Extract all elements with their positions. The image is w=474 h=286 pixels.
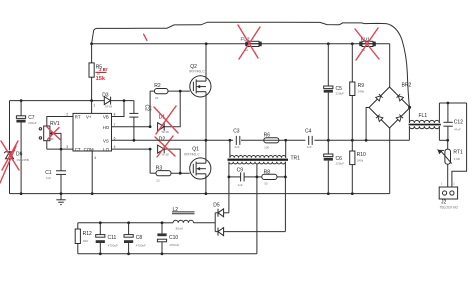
diode D2 (158, 137, 181, 174)
svg-text:5: 5 (114, 145, 116, 149)
bridge rectifier BR2 (369, 82, 411, 128)
svg-text:1N5245B: 1N5245B (16, 158, 29, 162)
capacitor C6 (bus electrolytic) (324, 140, 344, 193)
svg-text:D5: D5 (213, 202, 220, 208)
capacitor C7 (electrolytic) (16, 101, 36, 194)
svg-text:BR2: BR2 (402, 82, 412, 88)
svg-text:240k: 240k (357, 159, 364, 163)
svg-text:30: 30 (264, 182, 268, 186)
output - rail (78, 253, 257, 255)
svg-text:C2: C2 (144, 105, 150, 112)
svg-text:1uF: 1uF (238, 183, 243, 187)
resistor R9 (350, 44, 365, 141)
svg-text:RV1: RV1 (50, 121, 60, 127)
svg-text:22: 22 (155, 96, 159, 100)
potentiometer RV1 (39, 121, 61, 149)
diode on top-left edge (376, 94, 383, 101)
diode on bottom-left edge (376, 115, 383, 122)
wire hand-drawn annotation line across top (92, 22, 410, 107)
capacitor C4 (305, 128, 314, 149)
red cross-out over FU2 (238, 25, 260, 59)
capacitor C2 (bootstrap) (129, 101, 153, 141)
wire DC+ top rail (92, 43, 390, 45)
wire top AC row after FL1 (439, 102, 466, 104)
svg-text:2 Вт: 2 Вт (99, 67, 108, 72)
svg-text:R8: R8 (264, 169, 271, 175)
wire CT pin row (47, 148, 73, 150)
capacitor C1 (45, 149, 66, 194)
svg-text:15k: 15k (96, 76, 106, 82)
red cross-out over D6 (0, 141, 19, 183)
diode D1 (158, 90, 182, 134)
red cross-out over FU1 (355, 28, 379, 60)
red cross-out over RV1 (47, 127, 60, 140)
svg-text:22: 22 (156, 178, 160, 182)
svg-text:4700uF: 4700uF (108, 244, 118, 248)
inductor L2 (162, 207, 215, 231)
svg-text:IRF740LC: IRF740LC (184, 153, 200, 157)
wire RT pin row (47, 117, 73, 127)
svg-text:R2: R2 (154, 83, 161, 89)
wire COM to ground rail (91, 151, 93, 194)
svg-text:C10: C10 (169, 235, 178, 241)
wire VB row (112, 101, 125, 117)
svg-text:C11: C11 (108, 235, 117, 241)
svg-text:47nF: 47nF (454, 127, 461, 131)
capacitor C10 (electrolytic) (157, 223, 179, 254)
svg-text:R3: R3 (156, 166, 163, 172)
resistor R12 (75, 223, 92, 254)
wire DC- rail (10, 193, 390, 195)
transformer TR1 (228, 140, 301, 164)
thermistor RT1 (437, 140, 463, 187)
transistor Q2 (IRF740LC) (189, 44, 211, 141)
wire VS row / half-bridge midpoint to TR1 and bus-cap midpoint (112, 139, 410, 141)
svg-text:4: 4 (94, 156, 96, 160)
resistor R10 (350, 140, 366, 193)
svg-text:SF18: SF18 (162, 130, 170, 134)
svg-text:R6: R6 (264, 133, 271, 139)
svg-text:TBLOCK-M2: TBLOCK-M2 (440, 205, 458, 209)
wire right border to J2 (452, 103, 467, 187)
junction top rail / Q2 drain (205, 42, 208, 45)
wire TR1 secondary center tap down to bottom rail (256, 164, 258, 254)
capacitor C12 (443, 103, 463, 140)
svg-text:C3: C3 (233, 128, 240, 134)
svg-text:D3: D3 (102, 92, 109, 98)
junction top rail / R9 (351, 42, 354, 45)
transistor Q1 (IRF740LC) (184, 140, 211, 193)
wire TR1 secondary left leg down to D5 (228, 162, 230, 213)
svg-text:4700uF: 4700uF (169, 243, 179, 247)
capacitor C9 (228, 168, 259, 187)
red annotation on R5: strikethrough and new value 15k 2W (95, 67, 107, 82)
svg-text:1uF: 1uF (307, 145, 312, 149)
svg-text:LO: LO (103, 147, 109, 152)
svg-text:C4: C4 (305, 128, 312, 134)
ground (56, 194, 65, 205)
svg-text:1: 1 (93, 104, 95, 108)
dual diode D5 (213, 202, 285, 235)
zener diode D6 (4, 101, 29, 194)
wire TR1 secondary right leg down (284, 162, 286, 232)
junction top rail / R5 (90, 42, 93, 45)
wire LO gate loop left vertical (149, 149, 151, 173)
junction top rail / C5 (327, 42, 330, 45)
resistor R5 (89, 44, 102, 101)
wire V+ row y=100.6 (10, 100, 134, 102)
svg-text:3.9R: 3.9R (454, 157, 461, 161)
svg-text:R12: R12 (83, 231, 92, 237)
svg-text:FL1: FL1 (419, 113, 428, 119)
resistor R2 (150, 83, 190, 100)
svg-text:300: 300 (83, 239, 88, 243)
svg-text:220uF: 220uF (28, 121, 37, 125)
svg-text:220uF: 220uF (336, 92, 345, 96)
svg-text:R9: R9 (358, 83, 365, 89)
svg-text:HO: HO (103, 125, 110, 130)
svg-text:VS: VS (103, 138, 109, 143)
diode on top-right edge (397, 94, 404, 101)
svg-text:4700uF: 4700uF (136, 244, 146, 248)
svg-text:VB: VB (103, 115, 109, 120)
fuse FU1 (359, 36, 376, 52)
svg-text:D6: D6 (16, 152, 23, 158)
svg-text:R10: R10 (357, 152, 366, 158)
junction BR2 right vertex (408, 106, 411, 109)
svg-text:IRF740LC: IRF740LC (189, 70, 205, 74)
IC U1 IR2153 (66, 101, 115, 160)
svg-text:240k: 240k (358, 90, 365, 94)
wire bottom AC row after FL1 (439, 139, 448, 141)
svg-text:80uH: 80uH (176, 227, 183, 231)
resistor R8 (257, 169, 287, 185)
resistor R3 (150, 166, 190, 183)
svg-text:RT: RT (75, 115, 81, 120)
svg-text:SF18: SF18 (162, 152, 170, 156)
choke FL1 (409, 103, 441, 140)
svg-text:1uF: 1uF (46, 176, 51, 180)
svg-text:100: 100 (264, 145, 269, 149)
svg-text:CT: CT (75, 147, 81, 152)
svg-text:2nF: 2nF (235, 145, 240, 149)
wire LO row (112, 148, 151, 150)
svg-text:TR1: TR1 (291, 156, 301, 162)
red cross-out over D1 (154, 106, 178, 134)
wire HO row (112, 126, 151, 128)
red tick annotation on hand-drawn line (144, 34, 147, 40)
svg-text:C8: C8 (136, 235, 143, 241)
svg-text:220uF: 220uF (336, 162, 345, 166)
wire BR2 bottom vertex to DC- rail (389, 128, 391, 194)
output + rail (78, 222, 162, 224)
diode D3 (102, 92, 112, 108)
wire BR2 left vertex to bus midpoint (366, 108, 369, 141)
resistor R6 (264, 133, 279, 150)
capacitor C11 (electrolytic) (96, 223, 118, 254)
capacitor C3 (233, 128, 241, 149)
svg-text:V+: V+ (86, 115, 92, 120)
wire HO gate loop left vertical (149, 91, 151, 127)
svg-text:C12: C12 (454, 119, 463, 125)
svg-text:SF18: SF18 (105, 105, 113, 109)
capacitor C5 (bus electrolytic) (324, 44, 344, 141)
svg-text:L2: L2 (173, 207, 179, 213)
diode on bottom-right edge (396, 115, 403, 122)
svg-text:2: 2 (66, 113, 68, 117)
red cross-out over D2 (155, 136, 175, 157)
fuse FU2 (241, 36, 263, 52)
capacitor C8 (electrolytic) (124, 223, 146, 254)
connector J2 TBLOCK-M2 (439, 182, 458, 210)
svg-text:3: 3 (66, 145, 68, 149)
svg-text:RT1: RT1 (453, 150, 463, 156)
wire top rail down to BR2 top vertex (389, 44, 391, 87)
svg-text:C9: C9 (237, 168, 244, 174)
